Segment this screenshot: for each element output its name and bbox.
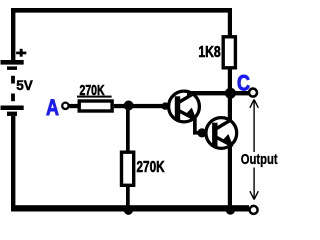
- transistor Q2 emitter line: [216, 137, 232, 146]
- resistor R3 1K8 box: [223, 37, 235, 68]
- battery B1 plus sign: [16, 49, 26, 57]
- wire R1 to Q1 base: [114, 104, 164, 108]
- wire A to R1: [70, 104, 79, 108]
- output arrow up head: [250, 100, 258, 108]
- transistor Q1 emitter arrowhead: [185, 108, 197, 121]
- wire right rail top to 1K8: [228, 8, 232, 36]
- wire left rail lower: [11, 116, 15, 212]
- svg-text:A: A: [46, 96, 59, 120]
- svg-text:1K8: 1K8: [198, 43, 221, 61]
- wire bottom rail: [11, 205, 249, 211]
- node C junction dot: [225, 88, 236, 99]
- junction dot R2 bottom: [124, 206, 133, 215]
- resistor R1 270K horizontal box: [79, 101, 112, 111]
- output arrow lower shaft: [253, 168, 255, 199]
- svg-text:270K: 270K: [137, 157, 165, 175]
- wire R2 to bottom rail: [126, 187, 130, 207]
- terminal bottom circle: [250, 206, 258, 214]
- wire Q1 emitter to Q2 base: [193, 131, 203, 135]
- transistor Q2 base bar: [212, 123, 217, 147]
- svg-text:5V: 5V: [16, 78, 33, 93]
- transistor Q2 circle: [206, 118, 237, 149]
- wire 1K8 to node C: [228, 70, 232, 93]
- wire left rail upper: [11, 8, 15, 61]
- svg-text:Output: Output: [241, 151, 278, 168]
- output arrow upper shaft: [253, 101, 255, 153]
- transistor Q2 emitter arrowhead: [221, 134, 233, 147]
- transistor Q2 collector line: [216, 120, 232, 130]
- transistor Q1 collector line: [179, 93, 195, 103]
- transistor Q1 base dot: [162, 102, 169, 109]
- wire top rail: [11, 8, 232, 13]
- wire node C horizontal: [187, 91, 249, 95]
- wire junction down to R2: [126, 106, 130, 153]
- transistor Q1 base bar: [175, 96, 180, 120]
- battery B1 top cell: [1, 60, 24, 70]
- wire right rail Q2 emitter to bottom: [228, 144, 232, 209]
- battery B1 dashed middle: [11, 76, 15, 101]
- transistor Q2 base dot: [197, 128, 206, 137]
- underline of 270K label: [77, 96, 112, 98]
- bottom junction dot: [226, 205, 236, 215]
- terminal A circle: [62, 103, 68, 109]
- terminal C circle: [249, 89, 257, 97]
- output arrow down head: [250, 191, 258, 199]
- transistor Q1 circle: [169, 91, 200, 122]
- resistor R2 270K vertical box: [122, 152, 134, 185]
- wire Q1 emitter elbow down: [193, 118, 197, 135]
- wire right rail C to Q2 collector: [228, 93, 232, 122]
- battery B1 bottom cell: [1, 106, 24, 116]
- junction node dot: [124, 101, 134, 111]
- transistor Q1 emitter line: [179, 111, 195, 120]
